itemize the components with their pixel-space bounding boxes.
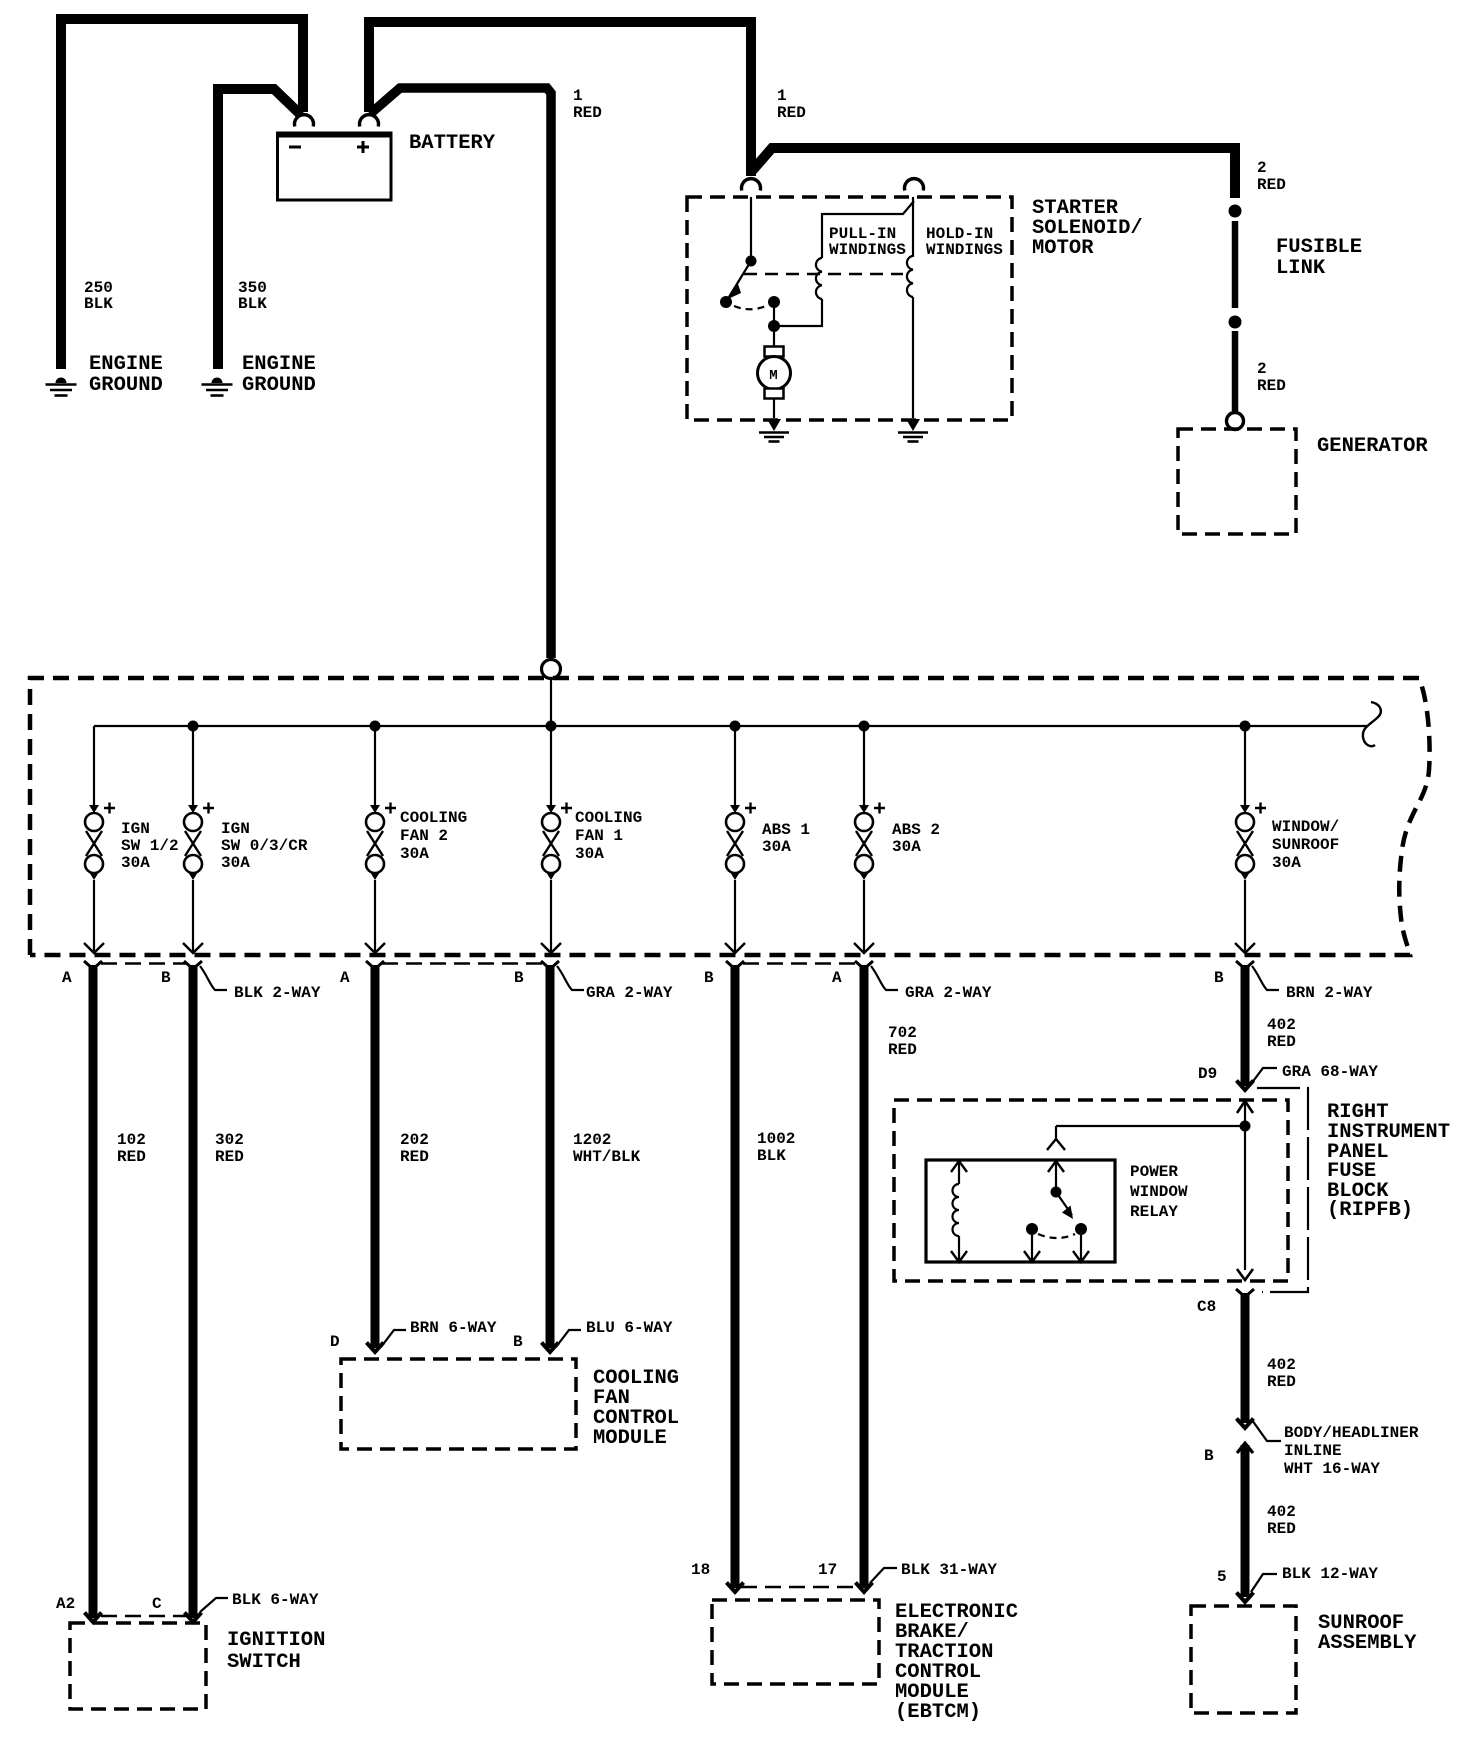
svg-text:30A: 30A <box>221 854 250 872</box>
svg-text:1202: 1202 <box>573 1131 611 1149</box>
svg-text:LINK: LINK <box>1276 257 1326 280</box>
battery negative terminal <box>295 115 314 127</box>
svg-text:RED: RED <box>1257 377 1286 395</box>
wire 1002 BLK <box>731 965 740 1588</box>
svg-text:B: B <box>513 1333 523 1351</box>
svg-text:B: B <box>704 969 714 987</box>
svg-text:RED: RED <box>1257 176 1286 194</box>
connector BLK 12-WAY terminal 5 <box>1251 1574 1277 1592</box>
svg-text:BLK: BLK <box>757 1147 786 1165</box>
hold-in winding ground <box>898 419 928 442</box>
svg-text:ENGINE: ENGINE <box>89 353 163 376</box>
svg-text:GRA 68-WAY: GRA 68-WAY <box>1282 1063 1378 1081</box>
svg-text:402: 402 <box>1267 1503 1296 1521</box>
svg-text:WINDOW: WINDOW <box>1130 1183 1188 1201</box>
wire 402 RED (C8 to inline connector) <box>1241 1293 1250 1423</box>
svg-text:RED: RED <box>1267 1033 1296 1051</box>
bus bar <box>94 725 1367 727</box>
svg-text:D9: D9 <box>1198 1065 1217 1083</box>
sunroof assembly <box>1191 1606 1296 1713</box>
pull-in windings coil <box>774 201 914 326</box>
connector dashes ignition fuse pair <box>101 962 186 964</box>
svg-text:INLINE: INLINE <box>1284 1442 1342 1460</box>
fuse ABS 1 30A <box>725 726 756 953</box>
svg-text:RED: RED <box>215 1148 244 1166</box>
svg-text:30A: 30A <box>1272 854 1301 872</box>
svg-text:FAN 2: FAN 2 <box>400 827 448 845</box>
bus junction node (COOLING FAN 2) <box>370 721 381 732</box>
wire 402 RED (inline to sunroof) <box>1241 1445 1250 1597</box>
connector GRA 2-WAY (abs) <box>871 966 898 990</box>
svg-text:1: 1 <box>573 87 583 105</box>
svg-text:2: 2 <box>1257 159 1267 177</box>
svg-text:1002: 1002 <box>757 1130 795 1148</box>
svg-text:MODULE: MODULE <box>593 1427 667 1450</box>
svg-text:RELAY: RELAY <box>1130 1203 1178 1221</box>
svg-text:WINDOW/: WINDOW/ <box>1272 818 1339 836</box>
svg-text:GENERATOR: GENERATOR <box>1317 435 1428 458</box>
svg-text:A: A <box>62 969 72 987</box>
starter motor ground <box>759 419 789 442</box>
svg-text:ASSEMBLY: ASSEMBLY <box>1318 1632 1417 1655</box>
svg-text:ENGINE: ENGINE <box>242 353 316 376</box>
svg-text:IGN: IGN <box>221 820 250 838</box>
RIPFB internal node <box>1240 1121 1251 1132</box>
bus junction node (IGN SW 0/3/CR) <box>188 721 199 732</box>
wire 1202 WHT/BLK <box>546 965 555 1348</box>
generator <box>1178 429 1296 534</box>
main fuse block (dashed, torn right edge) <box>30 678 1430 955</box>
mechanical linkage dashed line <box>744 273 903 276</box>
svg-text:BLK 12-WAY: BLK 12-WAY <box>1282 1565 1378 1583</box>
svg-text:BRN 2-WAY: BRN 2-WAY <box>1286 984 1373 1002</box>
svg-text:RED: RED <box>1267 1520 1296 1538</box>
wire 402 RED (fuse to RIPFB) <box>1241 965 1250 1086</box>
fuse block feed terminal <box>542 660 561 679</box>
wire 202 RED <box>371 965 380 1348</box>
wire starter solenoid to fusible link (2 RED) <box>752 148 1235 198</box>
svg-text:17: 17 <box>818 1561 837 1579</box>
svg-text:SWITCH: SWITCH <box>227 1651 301 1674</box>
starter switch contact <box>720 197 780 332</box>
connector dashes cooling fan fuse pair <box>382 962 542 964</box>
svg-text:C8: C8 <box>1197 1298 1216 1316</box>
svg-text:30A: 30A <box>575 845 604 863</box>
svg-text:BLK 6-WAY: BLK 6-WAY <box>232 1591 319 1609</box>
svg-text:SUNROOF: SUNROOF <box>1272 836 1339 854</box>
svg-text:COOLING: COOLING <box>400 809 467 827</box>
svg-text:GROUND: GROUND <box>242 374 316 397</box>
svg-text:B: B <box>1204 1447 1214 1465</box>
svg-text:WINDINGS: WINDINGS <box>926 241 1003 259</box>
RIPFB D9 entry arrow <box>1237 1101 1253 1113</box>
svg-text:18: 18 <box>691 1561 710 1579</box>
connector BLK 31-WAY terminals 18/17 <box>870 1568 897 1583</box>
svg-text:MOTOR: MOTOR <box>1032 237 1094 260</box>
svg-text:30A: 30A <box>762 838 791 856</box>
svg-text:M: M <box>769 368 777 384</box>
svg-text:GRA 2-WAY: GRA 2-WAY <box>905 984 992 1002</box>
relay coil <box>951 1161 967 1262</box>
starter solenoid/motor box <box>687 197 1012 420</box>
svg-text:30A: 30A <box>892 838 921 856</box>
svg-text:(EBTCM): (EBTCM) <box>895 1701 981 1724</box>
fuse IGN SW 1/2 30A <box>84 726 115 953</box>
svg-text:FUSIBLE: FUSIBLE <box>1276 236 1362 259</box>
svg-text:RED: RED <box>573 104 602 122</box>
connector GRA 2-WAY (cooling) <box>557 966 584 990</box>
svg-text:SW 0/3/CR: SW 0/3/CR <box>221 837 308 855</box>
svg-text:2: 2 <box>1257 360 1267 378</box>
svg-text:402: 402 <box>1267 1356 1296 1374</box>
wire 702 RED <box>860 965 869 1588</box>
fuse COOLING FAN 1 30A <box>541 726 572 953</box>
fuse WINDOW/SUNROOF 30A <box>1235 726 1266 953</box>
battery positive terminal <box>360 115 379 127</box>
bus continuation squiggle <box>1363 702 1381 746</box>
starter solenoid terminal 1 <box>742 179 761 191</box>
svg-text:C: C <box>152 1595 162 1613</box>
svg-text:A: A <box>832 969 842 987</box>
fuse COOLING FAN 2 30A <box>365 726 396 953</box>
svg-text:GROUND: GROUND <box>89 374 163 397</box>
svg-text:FAN 1: FAN 1 <box>575 827 623 845</box>
svg-text:RED: RED <box>1267 1373 1296 1391</box>
svg-text:702: 702 <box>888 1024 917 1042</box>
svg-text:302: 302 <box>215 1131 244 1149</box>
body/headliner inline connector WHT 16-WAY <box>1252 1420 1281 1441</box>
svg-text:POWER: POWER <box>1130 1163 1178 1181</box>
wire battery negative to engine ground 1 (250 BLK) <box>61 19 303 369</box>
wire battery positive to starter solenoid (1 RED) <box>369 22 751 176</box>
wire battery positive to fuse block feed (1 RED) <box>370 88 551 658</box>
ignition switch <box>70 1623 206 1709</box>
electronic brake/traction control module (EBTCM) <box>712 1600 879 1684</box>
engine ground 1 <box>46 378 77 396</box>
engine ground 2 <box>202 378 233 396</box>
svg-text:SW 1/2: SW 1/2 <box>121 837 179 855</box>
fuse IGN SW 0/3/CR 30A <box>183 726 214 953</box>
bus junction node (feed/COOLING FAN 1) <box>546 721 557 732</box>
wire 302 RED <box>189 965 198 1618</box>
svg-text:RED: RED <box>117 1148 146 1166</box>
svg-text:BLK: BLK <box>238 295 267 313</box>
relay switch <box>1024 1161 1089 1262</box>
svg-text:1: 1 <box>777 87 787 105</box>
cooling fan control module <box>341 1359 576 1449</box>
connector dashes ignition switch <box>101 1615 186 1617</box>
svg-text:(RIPFB): (RIPFB) <box>1327 1199 1413 1222</box>
starter solenoid terminal 2 <box>905 179 924 191</box>
svg-text:A2: A2 <box>56 1595 75 1613</box>
fuse ABS 2 30A <box>854 726 885 953</box>
connector BRN 2-WAY <box>1252 966 1279 990</box>
wire battery negative to engine ground 2 (350 BLK) <box>218 89 301 369</box>
svg-text:IGN: IGN <box>121 820 150 838</box>
bus junction node (ABS 1) <box>730 721 741 732</box>
battery <box>276 132 496 200</box>
connector BLK 6-WAY terminal A2/C <box>200 1598 228 1612</box>
connector dashes EBTCM <box>741 1586 855 1588</box>
fusible link <box>1227 205 1244 430</box>
svg-text:RED: RED <box>777 104 806 122</box>
svg-text:BRN 6-WAY: BRN 6-WAY <box>410 1319 497 1337</box>
svg-text:BLK 31-WAY: BLK 31-WAY <box>901 1561 997 1579</box>
connector BRN 6-WAY terminal D <box>381 1330 406 1347</box>
svg-text:B: B <box>1214 969 1224 987</box>
svg-text:BLU 6-WAY: BLU 6-WAY <box>586 1319 673 1337</box>
wire 102 RED <box>89 965 98 1618</box>
svg-text:GRA 2-WAY: GRA 2-WAY <box>586 984 673 1002</box>
svg-text:202: 202 <box>400 1131 429 1149</box>
svg-text:ABS 2: ABS 2 <box>892 821 940 839</box>
hold-in windings coil <box>907 197 913 418</box>
svg-text:A: A <box>340 969 350 987</box>
svg-text:WHT 16-WAY: WHT 16-WAY <box>1284 1460 1380 1478</box>
RIPFB internal wire to relay <box>1056 1125 1245 1127</box>
svg-text:BLK: BLK <box>84 295 113 313</box>
RIPFB connector bracket <box>1257 1088 1308 1292</box>
svg-text:D: D <box>330 1333 340 1351</box>
bus junction node (ABS 2) <box>859 721 870 732</box>
svg-text:WINDINGS: WINDINGS <box>829 241 906 259</box>
connector BLK 2-WAY <box>200 966 227 990</box>
connector BLU 6-WAY terminal B <box>556 1330 581 1347</box>
svg-text:5: 5 <box>1217 1568 1227 1586</box>
RIPFB internal wire down to C8 <box>1244 1126 1246 1270</box>
svg-text:B: B <box>514 969 524 987</box>
bus junction node (WINDOW/SUNROOF) <box>1240 721 1251 732</box>
svg-text:BATTERY: BATTERY <box>409 132 496 155</box>
svg-text:402: 402 <box>1267 1016 1296 1034</box>
svg-text:WHT/BLK: WHT/BLK <box>573 1148 641 1166</box>
svg-text:RED: RED <box>888 1041 917 1059</box>
svg-text:B: B <box>161 969 171 987</box>
svg-text:30A: 30A <box>121 854 150 872</box>
right instrument panel fuse block (RIPFB) <box>894 1100 1288 1281</box>
connector GRA 68-WAY terminal D9 <box>1251 1068 1277 1084</box>
svg-text:BLK 2-WAY: BLK 2-WAY <box>234 984 321 1002</box>
svg-text:RED: RED <box>400 1148 429 1166</box>
svg-text:COOLING: COOLING <box>575 809 642 827</box>
svg-text:102: 102 <box>117 1131 146 1149</box>
svg-text:ABS 1: ABS 1 <box>762 821 810 839</box>
svg-text:BODY/HEADLINER: BODY/HEADLINER <box>1284 1424 1419 1442</box>
svg-text:IGNITION: IGNITION <box>227 1629 325 1652</box>
connector dashes abs fuse pair <box>743 962 856 964</box>
starter motor M1 <box>758 332 791 418</box>
svg-text:30A: 30A <box>400 845 429 863</box>
power window relay <box>926 1160 1115 1262</box>
